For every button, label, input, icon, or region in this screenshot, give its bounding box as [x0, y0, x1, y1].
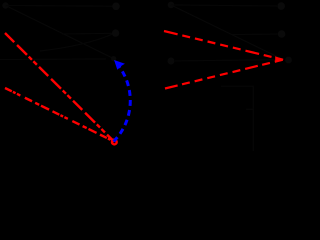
- wire faint wall horizontal: [221, 85, 254, 87]
- node A (left source dot): [2, 2, 8, 8]
- red dashed sight line L1 (steep, upper-left to circle): [5, 33, 114, 142]
- wire ray A2 to B2 (straight horizontal ray): [171, 5, 277, 6]
- wire rising ray to C: [40, 34, 114, 52]
- wire ray A to B (straight horizontal ray): [6, 5, 113, 8]
- red circle (apparent position marker): [112, 140, 117, 145]
- wire sight line to D (horizontal): [0, 58, 106, 61]
- wire branch ray to C (horizontal): [62, 32, 112, 35]
- blue dashed displacement arc: [114, 66, 131, 142]
- red dashed sight line L2 (shallow, left to circle): [5, 88, 114, 142]
- node B (left upper image dot): [112, 3, 120, 11]
- node D (true position dot): [111, 56, 116, 61]
- node B2 (right upper image dot): [277, 2, 285, 10]
- node A2 (right source dot): [168, 2, 175, 9]
- wire faint mark: [246, 108, 253, 110]
- blue arrowhead: [115, 61, 124, 69]
- node C2 (right lower image dot): [278, 30, 286, 38]
- node C (left lower image dot): [112, 29, 119, 36]
- red dashed sight line R1 (upper right): [164, 31, 283, 60]
- wire ray A2 to E (straight ray through P2): [171, 5, 283, 60]
- wire faint wall vertical: [252, 86, 254, 151]
- wire branch ray P2 to C2 (horizontal): [232, 33, 278, 36]
- wire sight line D2 to eye: [175, 60, 280, 61]
- red dashed sight line R2 (lower right): [165, 60, 283, 89]
- node E (observer eye dot, faint): [285, 57, 292, 64]
- red wedge at eye convergence point: [275, 56, 283, 63]
- wire ray A to D (straight ray through P): [6, 6, 114, 59]
- node D2 (right lower dot): [168, 58, 175, 65]
